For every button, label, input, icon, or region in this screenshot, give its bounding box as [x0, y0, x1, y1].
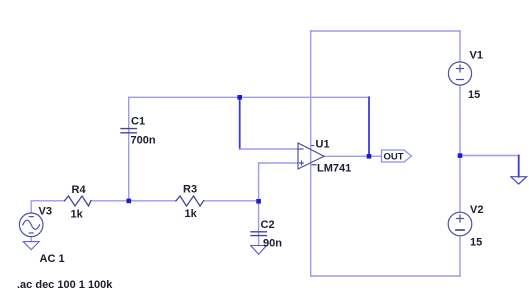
- resistor R4: [65, 196, 91, 206]
- voltage source V2: [448, 212, 472, 236]
- wire non-inverting vertical: [258, 163, 260, 201]
- junction node C1/R4/R3: [127, 199, 132, 204]
- junction node supply mid: [458, 153, 463, 158]
- svg-text:R3: R3: [183, 184, 197, 196]
- wire to inverting input: [240, 148, 298, 150]
- wire bottom rail from V2 to opamp V-: [311, 275, 460, 277]
- wire C2 vertical: [258, 201, 260, 246]
- wire right rail through V1 V2: [459, 31, 461, 276]
- wire V3 bottom stub: [30, 237, 32, 242]
- ground right: [511, 177, 527, 184]
- wire to non-inverting input: [259, 162, 298, 164]
- wire output node to ground right: [460, 155, 519, 157]
- wire top rail from opamp V+ to V1: [311, 30, 461, 32]
- voltage source V1: [448, 62, 471, 85]
- svg-text:C1: C1: [131, 116, 145, 128]
- net flag OUT: [382, 150, 412, 162]
- junction node R3/C2/+in: [256, 199, 261, 204]
- svg-text:1k: 1k: [185, 208, 198, 220]
- ground below V3: [23, 242, 39, 250]
- wire opamp output to OUT flag: [324, 155, 382, 157]
- voltage source V3: [19, 213, 43, 237]
- capacitor C1: [121, 129, 136, 133]
- svg-text:AC 1: AC 1: [40, 253, 65, 265]
- svg-text:15: 15: [468, 89, 480, 101]
- svg-text:700n: 700n: [131, 135, 156, 147]
- svg-text:C2: C2: [261, 219, 275, 231]
- svg-text:1k: 1k: [71, 209, 84, 221]
- wire R3 to C2 node: [204, 200, 259, 202]
- wire feedback vertical to output node: [368, 97, 370, 156]
- op-amp U1: [298, 143, 324, 169]
- wire C1 branch vertical: [128, 97, 130, 201]
- svg-text:LM741: LM741: [317, 163, 351, 175]
- svg-text:V2: V2: [470, 204, 483, 216]
- svg-text:V1: V1: [470, 50, 483, 62]
- svg-text:.ac dec 100 1 100k: .ac dec 100 1 100k: [17, 279, 113, 291]
- wire right ground stem: [518, 156, 520, 177]
- svg-text:V3: V3: [39, 206, 52, 218]
- capacitor C2: [251, 232, 266, 236]
- svg-text:U1: U1: [316, 139, 330, 151]
- wire R4 to R3: [91, 200, 176, 202]
- ground below C2: [251, 246, 267, 255]
- svg-text:OUT: OUT: [384, 152, 404, 163]
- junction node output: [367, 154, 372, 159]
- wire feedback top horizontal: [129, 96, 369, 98]
- junction node feedback tap: [237, 95, 242, 100]
- wire V3 to R4: [31, 201, 64, 213]
- resistor R3: [176, 196, 204, 206]
- svg-text:R4: R4: [72, 184, 87, 196]
- wire opamp power vertical: [310, 31, 312, 276]
- svg-text:90n: 90n: [263, 238, 282, 250]
- wire inverting tap vertical: [239, 97, 241, 149]
- svg-text:15: 15: [470, 237, 482, 249]
